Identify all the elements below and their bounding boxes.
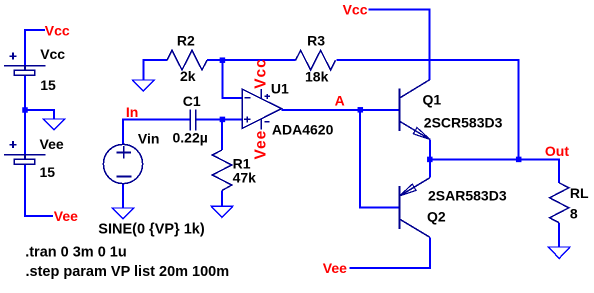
svg-text:15: 15 — [40, 77, 56, 93]
svg-text:Vee: Vee — [40, 136, 64, 152]
svg-text:Vee: Vee — [323, 260, 347, 276]
svg-text:2SCR583D3: 2SCR583D3 — [424, 115, 503, 131]
svg-text:8: 8 — [570, 206, 578, 222]
svg-text:Vcc: Vcc — [45, 23, 70, 39]
svg-text:SINE(0 {VP} 1k): SINE(0 {VP} 1k) — [98, 222, 205, 238]
svg-text:Vee: Vee — [54, 208, 78, 224]
svg-text:A: A — [335, 92, 345, 108]
svg-text:.step param VP list 20m 100m: .step param VP list 20m 100m — [26, 264, 230, 280]
svg-text:ADA4620: ADA4620 — [272, 122, 334, 138]
svg-text:U1: U1 — [271, 80, 289, 96]
svg-text:Vcc: Vcc — [252, 58, 269, 89]
svg-text:C1: C1 — [183, 93, 201, 109]
svg-text:RL: RL — [570, 185, 589, 201]
svg-text:47k: 47k — [233, 169, 257, 185]
svg-text:Vee: Vee — [252, 130, 269, 160]
svg-text:Out: Out — [545, 143, 569, 159]
svg-text:2SAR583D3: 2SAR583D3 — [428, 187, 507, 203]
svg-text:Q1: Q1 — [423, 91, 442, 107]
svg-text:Vcc: Vcc — [343, 2, 368, 18]
svg-text:Vcc: Vcc — [40, 46, 65, 62]
svg-text:Q2: Q2 — [427, 209, 446, 225]
svg-text:18k: 18k — [305, 69, 329, 85]
svg-text:R2: R2 — [177, 33, 195, 49]
svg-text:Vin: Vin — [138, 131, 160, 147]
svg-text:.tran 0 3m 0 1u: .tran 0 3m 0 1u — [25, 244, 127, 260]
svg-text:2k: 2k — [180, 68, 196, 84]
svg-text:0.22µ: 0.22µ — [173, 130, 208, 146]
svg-text:R3: R3 — [307, 32, 325, 48]
svg-text:15: 15 — [40, 164, 56, 180]
svg-text:In: In — [126, 104, 138, 120]
